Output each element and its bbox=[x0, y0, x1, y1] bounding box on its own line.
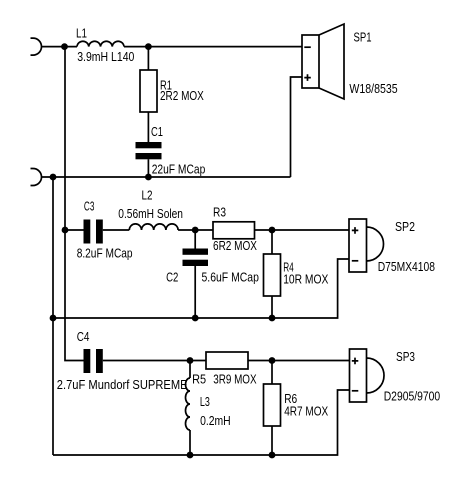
wire return feed down from input2 bbox=[52, 177, 54, 455]
svg-text:SP1: SP1 bbox=[354, 30, 372, 45]
node D (C1 on return rail) bbox=[145, 174, 152, 181]
svg-text:C3: C3 bbox=[84, 199, 95, 214]
node M (L3 on bottom rail) bbox=[187, 452, 194, 459]
capacitor C4 bbox=[84, 349, 103, 373]
svg-text:C4: C4 bbox=[77, 329, 90, 344]
node N (R6 on bottom rail) bbox=[269, 452, 276, 459]
svg-text:SP3: SP3 bbox=[396, 349, 415, 364]
input terminal J1 bbox=[31, 38, 42, 55]
node F (mid rail branch) bbox=[50, 315, 57, 322]
wire C2 top lead bbox=[194, 230, 196, 249]
wire return rail wire2 bbox=[42, 176, 291, 178]
wire L1 to SP1 bbox=[124, 46, 302, 48]
wire C3 to L2 bbox=[103, 229, 130, 231]
inductor L2 bbox=[129, 224, 178, 230]
svg-text:SP2: SP2 bbox=[395, 219, 415, 234]
wire mid return rail bbox=[53, 259, 349, 318]
wire R1 to C1 bbox=[147, 112, 149, 142]
inductor L1 bbox=[77, 41, 124, 46]
SP2 minus pin bbox=[352, 260, 359, 262]
capacitor C3 bbox=[84, 220, 103, 244]
wire SP1 plus return bbox=[291, 77, 303, 177]
node B (R1 branch junction) bbox=[145, 43, 152, 50]
node L (R6 branch) bbox=[269, 357, 276, 364]
resistor R5 bbox=[206, 352, 248, 369]
SP1 minus pin bbox=[304, 46, 311, 48]
speaker SP3 bbox=[350, 349, 367, 402]
node C (C3 branch junction) bbox=[62, 227, 69, 234]
node G (C2 branch) bbox=[192, 227, 199, 234]
wire L2 to R3 bbox=[178, 229, 213, 231]
wire C3 lead bbox=[65, 229, 84, 231]
svg-text:R5: R5 bbox=[192, 372, 206, 387]
svg-text:W18/8535: W18/8535 bbox=[349, 81, 397, 96]
wire R6 top lead bbox=[271, 361, 273, 385]
wire L3 top lead bbox=[189, 361, 191, 379]
node H (R4 branch) bbox=[269, 227, 276, 234]
svg-text:8.2uF MCap: 8.2uF MCap bbox=[77, 246, 133, 261]
node K (L3 branch) bbox=[187, 357, 194, 364]
wire bottom return rail bbox=[53, 390, 350, 455]
node A (input1/feed junction) bbox=[61, 43, 68, 50]
SP3 minus pin bbox=[352, 390, 359, 392]
svg-text:4R7 MOX: 4R7 MOX bbox=[284, 404, 328, 419]
wire L3 bottom lead bbox=[189, 430, 191, 455]
svg-text:3R9 MOX: 3R9 MOX bbox=[213, 372, 257, 387]
wire R5 to SP3 bbox=[248, 360, 350, 362]
SP3 plus pin bbox=[352, 358, 359, 365]
node E (input2 junction) bbox=[50, 174, 57, 181]
wire R4 bottom lead bbox=[271, 296, 273, 318]
wire R3 to SP2 bbox=[255, 229, 350, 231]
svg-text:R3: R3 bbox=[213, 204, 226, 219]
resistor R6 bbox=[264, 384, 281, 426]
svg-text:6R2 MOX: 6R2 MOX bbox=[213, 238, 257, 253]
SP1 plus pin bbox=[304, 74, 311, 81]
svg-text:C1: C1 bbox=[151, 124, 163, 139]
svg-text:0.56mH Solen: 0.56mH Solen bbox=[118, 206, 183, 221]
wire input1 to L1 bbox=[42, 46, 78, 48]
capacitor C1 bbox=[136, 142, 162, 159]
wire C4 to R5 bbox=[103, 360, 206, 362]
svg-text:2.7uF Mundorf SUPREME: 2.7uF Mundorf SUPREME bbox=[57, 377, 188, 392]
svg-text:3.9mH L140: 3.9mH L140 bbox=[77, 49, 134, 64]
wire C1 to wire2 bbox=[147, 159, 149, 177]
svg-text:C2: C2 bbox=[166, 270, 178, 285]
speaker SP1 bbox=[302, 35, 319, 88]
svg-text:22uF MCap: 22uF MCap bbox=[152, 162, 206, 177]
svg-text:0.2mH: 0.2mH bbox=[200, 413, 231, 428]
wire C2 bottom lead bbox=[194, 266, 196, 318]
node I (C2 on mid rail) bbox=[192, 315, 199, 322]
svg-text:D2905/9700: D2905/9700 bbox=[384, 389, 441, 404]
svg-text:D75MX4108: D75MX4108 bbox=[378, 259, 435, 274]
wire R1 branch down bbox=[147, 47, 149, 70]
svg-text:L1: L1 bbox=[76, 26, 87, 41]
wire R6 bottom lead bbox=[271, 426, 273, 455]
resistor R1 bbox=[140, 70, 157, 112]
svg-text:L2: L2 bbox=[142, 188, 153, 203]
wire feed line from input1 down to C4 bbox=[65, 47, 84, 361]
svg-text:L3: L3 bbox=[200, 394, 210, 409]
resistor R3 bbox=[213, 222, 255, 239]
resistor R4 bbox=[264, 254, 281, 296]
speaker SP2 bbox=[349, 219, 367, 272]
capacitor C2 bbox=[183, 249, 209, 267]
svg-text:5.6uF MCap: 5.6uF MCap bbox=[202, 270, 259, 285]
SP2 plus pin bbox=[352, 227, 359, 234]
wire R4 top lead bbox=[271, 230, 273, 254]
svg-text:10R MOX: 10R MOX bbox=[283, 271, 328, 286]
inductor L3 bbox=[186, 378, 191, 430]
input terminal J2 bbox=[31, 169, 42, 186]
node J (R4 on mid rail) bbox=[269, 315, 276, 322]
svg-text:2R2 MOX: 2R2 MOX bbox=[160, 88, 204, 103]
